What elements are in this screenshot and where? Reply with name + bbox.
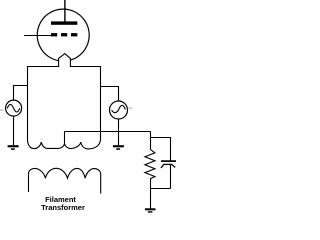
capacitor bottom lead [170,165,172,189]
capacitor top plate [161,160,176,162]
transformer primary (bottom winding, humps up) [29,168,101,193]
grid (dashed bar) [51,33,77,36]
AC source 1 (left) [6,100,22,116]
label: Filament Transformer [41,195,85,212]
capacitor bottom plate (curved) [161,164,175,168]
plate lead [64,0,66,22]
bottom wire: resistor to capacitor [151,188,171,190]
faint stub left of AC source 1 [0,109,3,111]
wire: center tap to load [65,131,151,133]
transformer secondary (top winding, scallops down) [28,140,101,149]
filament (inverted V heater) [59,54,71,68]
wire: branch to AC source 2 [101,87,119,102]
wire: branch to capacitor [151,138,171,161]
wire: branch to AC source 1 [14,86,28,101]
plate (anode bar) [51,21,77,24]
secondary center tap [64,132,66,144]
AC source 2 (right) [110,101,128,119]
ground (bottom right) [145,208,156,212]
wire: filament left leg to transformer secondary left end [28,67,59,141]
grid lead [24,35,51,37]
triode V1 envelope [37,9,89,61]
resistor [145,150,155,189]
wire: bottom node to ground [150,189,152,209]
faint stub right of AC source 2 [129,107,133,109]
svg-text:Transformer: Transformer [41,203,85,212]
wire: resistor top lead [150,132,152,150]
wire: AC source 2 to ground [118,119,120,145]
wire: AC source 1 to ground [13,116,15,145]
ground (middle) [113,145,124,150]
wire: filament right leg to transformer secondary right end [70,67,100,141]
ground (left) [8,145,19,150]
